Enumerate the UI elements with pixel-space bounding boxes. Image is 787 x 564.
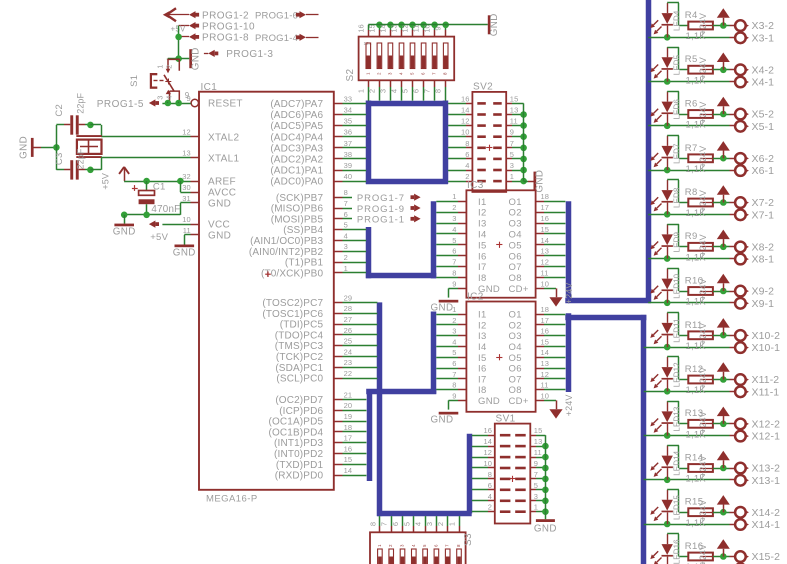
svg-text:2: 2 bbox=[436, 522, 445, 526]
svg-text:5: 5 bbox=[452, 348, 456, 357]
svg-text:+24V: +24V bbox=[698, 146, 708, 168]
svg-text:+24V: +24V bbox=[698, 323, 708, 345]
svg-text:1: 1 bbox=[452, 305, 456, 314]
svg-text:I7: I7 bbox=[478, 374, 487, 385]
svg-text:LED16: LED16 bbox=[673, 539, 682, 564]
svg-text:4: 4 bbox=[414, 522, 423, 526]
svg-text:PROG1-7: PROG1-7 bbox=[357, 193, 405, 204]
svg-text:1: 1 bbox=[365, 72, 370, 75]
svg-text:X13-2: X13-2 bbox=[752, 463, 781, 475]
svg-text:SV1: SV1 bbox=[496, 413, 516, 424]
svg-text:I6: I6 bbox=[478, 251, 487, 262]
svg-text:X10-2: X10-2 bbox=[752, 330, 781, 342]
svg-text:R4: R4 bbox=[685, 10, 698, 21]
svg-text:(ADC5)PA5: (ADC5)PA5 bbox=[270, 121, 323, 132]
svg-text:12: 12 bbox=[541, 258, 550, 267]
svg-text:2: 2 bbox=[344, 253, 348, 262]
svg-text:MEGA16-P: MEGA16-P bbox=[206, 494, 258, 505]
svg-text:I3: I3 bbox=[478, 219, 487, 230]
svg-text:GND: GND bbox=[190, 47, 201, 70]
svg-text:GND: GND bbox=[478, 396, 500, 407]
svg-text:I3: I3 bbox=[478, 331, 487, 342]
svg-text:6: 6 bbox=[452, 359, 456, 368]
svg-text:GND: GND bbox=[534, 524, 557, 535]
svg-text:R7: R7 bbox=[685, 143, 698, 154]
svg-text:14: 14 bbox=[541, 348, 550, 357]
svg-text:I7: I7 bbox=[478, 262, 487, 273]
svg-text:24: 24 bbox=[344, 347, 353, 356]
svg-text:5: 5 bbox=[401, 89, 410, 93]
svg-text:4: 4 bbox=[465, 161, 469, 170]
svg-text:LED7: LED7 bbox=[673, 143, 682, 164]
svg-text:16: 16 bbox=[541, 327, 550, 336]
svg-text:R9: R9 bbox=[685, 231, 698, 242]
svg-text:I5: I5 bbox=[478, 240, 487, 251]
svg-text:O5: O5 bbox=[509, 240, 522, 251]
svg-text:8: 8 bbox=[452, 269, 456, 278]
svg-text:28: 28 bbox=[344, 304, 353, 313]
svg-text:13: 13 bbox=[182, 149, 191, 158]
svg-text:32: 32 bbox=[182, 172, 191, 181]
svg-text:34: 34 bbox=[344, 106, 353, 115]
svg-text:8: 8 bbox=[456, 544, 461, 547]
svg-text:2: 2 bbox=[367, 89, 376, 93]
svg-text:3: 3 bbox=[400, 544, 405, 547]
svg-text:(ADC0)PA0: (ADC0)PA0 bbox=[270, 177, 323, 188]
svg-text:GND: GND bbox=[113, 227, 136, 238]
svg-text:12: 12 bbox=[461, 117, 470, 126]
svg-text:PROG1-4: PROG1-4 bbox=[255, 33, 298, 44]
svg-text:(ADC1)PA1: (ADC1)PA1 bbox=[270, 166, 323, 177]
svg-text:GND: GND bbox=[173, 248, 196, 259]
svg-text:S3: S3 bbox=[463, 533, 474, 546]
svg-text:12: 12 bbox=[182, 128, 191, 137]
svg-text:7: 7 bbox=[445, 544, 450, 547]
svg-text:C3: C3 bbox=[54, 153, 65, 166]
svg-text:9: 9 bbox=[452, 279, 456, 288]
svg-text:30: 30 bbox=[182, 183, 191, 192]
svg-text:(TCK)PC2: (TCK)PC2 bbox=[276, 352, 324, 363]
svg-text:3: 3 bbox=[534, 492, 538, 501]
svg-text:O3: O3 bbox=[509, 331, 522, 342]
svg-text:7: 7 bbox=[432, 72, 437, 75]
svg-text:GND: GND bbox=[431, 302, 454, 313]
svg-text:+24V: +24V bbox=[698, 544, 708, 564]
svg-text:RESET: RESET bbox=[208, 99, 243, 110]
svg-text:X9-2: X9-2 bbox=[752, 286, 775, 298]
svg-text:GND: GND bbox=[208, 231, 231, 242]
svg-text:R5: R5 bbox=[685, 54, 698, 65]
svg-text:9: 9 bbox=[434, 26, 443, 30]
svg-text:X9-1: X9-1 bbox=[752, 298, 775, 310]
svg-text:470nF: 470nF bbox=[151, 204, 180, 215]
svg-text:PROG1-3: PROG1-3 bbox=[226, 49, 273, 60]
svg-text:35: 35 bbox=[344, 117, 353, 126]
svg-text:13: 13 bbox=[534, 437, 543, 446]
svg-text:1: 1 bbox=[448, 522, 457, 526]
svg-text:8: 8 bbox=[452, 381, 456, 390]
svg-text:9: 9 bbox=[510, 128, 514, 137]
svg-text:LED12: LED12 bbox=[673, 362, 682, 387]
svg-text:4: 4 bbox=[452, 225, 456, 234]
svg-text:15: 15 bbox=[534, 426, 543, 435]
svg-text:(ICP)PD6: (ICP)PD6 bbox=[279, 406, 323, 417]
svg-text:LED5: LED5 bbox=[673, 54, 682, 75]
svg-text:1: 1 bbox=[510, 172, 514, 181]
svg-text:+24V: +24V bbox=[698, 500, 708, 522]
svg-text:O5: O5 bbox=[509, 353, 522, 364]
svg-text:(ADC3)PA3: (ADC3)PA3 bbox=[270, 143, 323, 154]
svg-text:(OC2)PD7: (OC2)PD7 bbox=[275, 395, 323, 406]
svg-text:4: 4 bbox=[390, 89, 399, 93]
svg-text:4: 4 bbox=[488, 492, 492, 501]
svg-text:+24V: +24V bbox=[564, 395, 574, 417]
svg-text:X6-2: X6-2 bbox=[752, 153, 775, 165]
svg-text:8: 8 bbox=[488, 470, 492, 479]
svg-text:17: 17 bbox=[541, 203, 550, 212]
svg-text:+24V: +24V bbox=[564, 283, 574, 305]
svg-text:X4-1: X4-1 bbox=[752, 77, 775, 89]
svg-text:6: 6 bbox=[433, 544, 438, 547]
svg-text:8: 8 bbox=[443, 72, 448, 75]
svg-text:AVCC: AVCC bbox=[208, 188, 236, 199]
svg-text:C2: C2 bbox=[54, 104, 65, 117]
svg-text:7: 7 bbox=[510, 139, 514, 148]
svg-text:15: 15 bbox=[541, 225, 550, 234]
svg-text:22: 22 bbox=[344, 369, 353, 378]
svg-text:10: 10 bbox=[461, 128, 470, 137]
svg-text:7: 7 bbox=[423, 89, 432, 93]
svg-text:19: 19 bbox=[344, 412, 353, 421]
svg-text:O7: O7 bbox=[509, 374, 522, 385]
svg-text:O6: O6 bbox=[509, 251, 522, 262]
svg-text:8: 8 bbox=[344, 188, 348, 197]
svg-text:O3: O3 bbox=[509, 219, 522, 230]
svg-text:IC1: IC1 bbox=[201, 82, 218, 93]
svg-text:14: 14 bbox=[541, 236, 550, 245]
svg-text:(TOSC2)PC7: (TOSC2)PC7 bbox=[262, 298, 323, 309]
svg-text:X3-1: X3-1 bbox=[752, 32, 775, 44]
svg-text:LED6: LED6 bbox=[673, 99, 682, 120]
svg-text:5: 5 bbox=[534, 481, 538, 490]
svg-text:6: 6 bbox=[412, 89, 421, 93]
svg-text:1: 1 bbox=[377, 544, 382, 547]
svg-text:5: 5 bbox=[410, 72, 415, 75]
svg-text:PROG1-8: PROG1-8 bbox=[202, 33, 249, 44]
svg-text:25: 25 bbox=[344, 337, 353, 346]
svg-text:O4: O4 bbox=[509, 230, 522, 241]
svg-text:7: 7 bbox=[344, 199, 348, 208]
svg-text:22pF: 22pF bbox=[76, 92, 86, 113]
svg-text:27: 27 bbox=[344, 315, 353, 324]
svg-text:1: 1 bbox=[356, 89, 365, 93]
svg-text:+24V: +24V bbox=[698, 13, 708, 35]
svg-text:10: 10 bbox=[423, 24, 432, 32]
svg-text:PROG1-10: PROG1-10 bbox=[202, 21, 255, 32]
svg-text:3: 3 bbox=[378, 89, 387, 93]
svg-text:16: 16 bbox=[483, 426, 492, 435]
svg-text:(ADC2)PA2: (ADC2)PA2 bbox=[270, 155, 323, 166]
svg-text:15: 15 bbox=[344, 455, 353, 464]
svg-text:18: 18 bbox=[344, 423, 353, 432]
svg-text:39: 39 bbox=[344, 161, 353, 170]
svg-text:14: 14 bbox=[344, 466, 353, 475]
svg-text:16: 16 bbox=[356, 24, 365, 32]
svg-text:I4: I4 bbox=[478, 230, 487, 241]
svg-text:2: 2 bbox=[452, 203, 456, 212]
svg-text:O2: O2 bbox=[509, 320, 522, 331]
svg-text:O6: O6 bbox=[509, 364, 522, 375]
svg-text:17: 17 bbox=[541, 316, 550, 325]
svg-text:R6: R6 bbox=[685, 99, 698, 110]
svg-text:(ADC7)PA7: (ADC7)PA7 bbox=[270, 99, 323, 110]
svg-text:XTAL2: XTAL2 bbox=[208, 132, 239, 143]
svg-text:15: 15 bbox=[367, 24, 376, 32]
svg-text:PROG1-6: PROG1-6 bbox=[255, 11, 298, 22]
svg-text:11: 11 bbox=[541, 269, 549, 278]
svg-text:XTAL1: XTAL1 bbox=[208, 153, 239, 164]
svg-text:O1: O1 bbox=[509, 197, 522, 208]
svg-text:X6-1: X6-1 bbox=[752, 165, 775, 177]
svg-text:LED8: LED8 bbox=[673, 187, 682, 208]
svg-text:12: 12 bbox=[401, 24, 410, 32]
svg-text:23: 23 bbox=[344, 358, 353, 367]
svg-text:(ADC6)PA6: (ADC6)PA6 bbox=[270, 110, 323, 121]
svg-text:SV2: SV2 bbox=[473, 82, 493, 93]
svg-text:I6: I6 bbox=[478, 364, 487, 375]
svg-text:(TXD)PD1: (TXD)PD1 bbox=[276, 460, 324, 471]
svg-text:3: 3 bbox=[425, 522, 434, 526]
svg-text:21: 21 bbox=[344, 390, 353, 399]
svg-text:15: 15 bbox=[541, 337, 550, 346]
svg-text:X10-1: X10-1 bbox=[752, 342, 781, 354]
svg-text:(ADC4)PA4: (ADC4)PA4 bbox=[270, 132, 323, 143]
svg-text:6: 6 bbox=[452, 247, 456, 256]
svg-text:7: 7 bbox=[534, 470, 538, 479]
svg-text:5: 5 bbox=[402, 522, 411, 526]
svg-text:+5V: +5V bbox=[101, 173, 111, 190]
svg-text:11: 11 bbox=[534, 448, 542, 457]
svg-text:10: 10 bbox=[483, 459, 492, 468]
svg-text:12: 12 bbox=[541, 370, 550, 379]
svg-text:+24V: +24V bbox=[698, 101, 708, 123]
svg-text:X12-2: X12-2 bbox=[752, 418, 781, 430]
svg-text:13: 13 bbox=[541, 359, 550, 368]
svg-text:CD+: CD+ bbox=[509, 396, 529, 407]
svg-text:(TMS)PC3: (TMS)PC3 bbox=[275, 341, 324, 352]
svg-text:11: 11 bbox=[412, 25, 421, 33]
svg-text:(SS)PB4: (SS)PB4 bbox=[283, 225, 323, 236]
svg-text:15: 15 bbox=[510, 94, 519, 103]
svg-text:X5-2: X5-2 bbox=[752, 109, 775, 121]
svg-text:(AIN0/INT2)PB2: (AIN0/INT2)PB2 bbox=[249, 247, 324, 258]
svg-text:14: 14 bbox=[378, 24, 387, 32]
svg-text:7: 7 bbox=[380, 522, 389, 526]
svg-text:20: 20 bbox=[344, 401, 353, 410]
svg-text:7: 7 bbox=[452, 370, 456, 379]
svg-text:(INT1)PD3: (INT1)PD3 bbox=[274, 438, 323, 449]
svg-text:+24V: +24V bbox=[698, 234, 708, 256]
svg-text:11: 11 bbox=[541, 381, 549, 390]
svg-text:X7-2: X7-2 bbox=[752, 197, 775, 209]
svg-text:5: 5 bbox=[422, 544, 427, 547]
svg-text:X14-1: X14-1 bbox=[752, 519, 781, 531]
svg-text:4: 4 bbox=[344, 231, 348, 240]
svg-text:33: 33 bbox=[344, 94, 353, 103]
svg-text:O1: O1 bbox=[509, 310, 522, 321]
svg-text:29: 29 bbox=[344, 293, 353, 302]
svg-text:PROG1-1: PROG1-1 bbox=[357, 215, 405, 226]
svg-text:10: 10 bbox=[541, 279, 550, 288]
svg-text:18: 18 bbox=[541, 192, 550, 201]
svg-text:+24V: +24V bbox=[698, 57, 708, 79]
svg-text:IC3: IC3 bbox=[467, 180, 484, 191]
svg-text:36: 36 bbox=[344, 128, 353, 137]
svg-text:4: 4 bbox=[399, 72, 404, 75]
svg-text:+24V: +24V bbox=[698, 367, 708, 389]
svg-text:O2: O2 bbox=[509, 208, 522, 219]
svg-text:13: 13 bbox=[390, 24, 399, 32]
svg-text:3: 3 bbox=[452, 327, 456, 336]
svg-text:(MOSI)PB5: (MOSI)PB5 bbox=[271, 214, 324, 225]
svg-text:8: 8 bbox=[434, 89, 443, 93]
svg-text:S2: S2 bbox=[345, 68, 356, 81]
svg-text:(OC1B)PD4: (OC1B)PD4 bbox=[268, 427, 323, 438]
svg-text:(MISO)PB6: (MISO)PB6 bbox=[271, 204, 324, 215]
svg-text:X12-1: X12-1 bbox=[752, 431, 781, 443]
svg-text:LED4: LED4 bbox=[673, 10, 682, 31]
svg-text:5: 5 bbox=[452, 236, 456, 245]
svg-text:12: 12 bbox=[483, 448, 492, 457]
svg-text:I1: I1 bbox=[478, 310, 487, 321]
svg-text:S1: S1 bbox=[129, 75, 140, 87]
svg-text:6: 6 bbox=[488, 481, 492, 490]
svg-text:+24V: +24V bbox=[698, 190, 708, 212]
svg-text:(RXD)PD0: (RXD)PD0 bbox=[275, 471, 324, 482]
svg-text:10: 10 bbox=[541, 391, 550, 400]
svg-text:(TDO)PC4: (TDO)PC4 bbox=[275, 330, 324, 341]
svg-text:X8-1: X8-1 bbox=[752, 254, 775, 266]
svg-text:GND: GND bbox=[535, 170, 546, 193]
svg-text:O4: O4 bbox=[509, 342, 522, 353]
svg-text:8: 8 bbox=[465, 139, 469, 148]
svg-text:+24V: +24V bbox=[698, 278, 708, 300]
svg-text:16: 16 bbox=[344, 444, 353, 453]
svg-text:AREF: AREF bbox=[208, 177, 236, 188]
svg-text:CD+: CD+ bbox=[509, 284, 529, 295]
svg-text:I8: I8 bbox=[478, 385, 487, 396]
svg-text:26: 26 bbox=[344, 326, 353, 335]
svg-text:10: 10 bbox=[182, 215, 191, 224]
svg-text:37: 37 bbox=[344, 139, 353, 148]
svg-text:6: 6 bbox=[344, 210, 348, 219]
svg-text:X15-2: X15-2 bbox=[752, 551, 781, 563]
svg-text:9: 9 bbox=[185, 91, 190, 100]
svg-text:3: 3 bbox=[344, 242, 348, 251]
svg-text:7: 7 bbox=[452, 258, 456, 267]
svg-text:LED10: LED10 bbox=[673, 273, 682, 298]
svg-text:I8: I8 bbox=[478, 273, 487, 284]
svg-text:PROG1-5: PROG1-5 bbox=[97, 99, 144, 110]
svg-text:(SDA)PC1: (SDA)PC1 bbox=[275, 363, 323, 374]
svg-text:1: 1 bbox=[344, 264, 348, 273]
svg-text:18: 18 bbox=[541, 305, 550, 314]
svg-text:GND: GND bbox=[208, 199, 231, 210]
svg-text:X11-1: X11-1 bbox=[752, 386, 780, 398]
svg-text:O7: O7 bbox=[509, 262, 522, 273]
svg-text:(TDI)PC5: (TDI)PC5 bbox=[280, 320, 324, 331]
svg-text:C1: C1 bbox=[153, 182, 166, 193]
svg-text:X7-1: X7-1 bbox=[752, 209, 775, 221]
svg-text:2: 2 bbox=[488, 503, 492, 512]
svg-text:(T1)PB1: (T1)PB1 bbox=[285, 258, 324, 269]
svg-text:3: 3 bbox=[156, 95, 165, 99]
svg-text:14: 14 bbox=[461, 106, 470, 115]
svg-text:3: 3 bbox=[387, 72, 392, 75]
svg-text:X8-2: X8-2 bbox=[752, 241, 775, 253]
svg-text:3: 3 bbox=[452, 214, 456, 223]
svg-text:+24V: +24V bbox=[698, 411, 708, 433]
svg-text:I5: I5 bbox=[478, 353, 487, 364]
svg-text:6: 6 bbox=[391, 522, 400, 526]
svg-text:GND: GND bbox=[431, 414, 454, 425]
svg-text:X14-2: X14-2 bbox=[752, 507, 781, 519]
svg-text:11: 11 bbox=[510, 117, 518, 126]
svg-text:16: 16 bbox=[461, 94, 470, 103]
svg-text:5: 5 bbox=[510, 150, 514, 159]
svg-text:31: 31 bbox=[182, 194, 191, 203]
svg-text:X11-2: X11-2 bbox=[752, 374, 780, 386]
svg-text:LED11: LED11 bbox=[673, 318, 682, 343]
svg-text:5: 5 bbox=[344, 221, 348, 230]
svg-text:I4: I4 bbox=[478, 342, 487, 353]
svg-text:O8: O8 bbox=[509, 385, 522, 396]
svg-text:2: 2 bbox=[388, 544, 393, 547]
svg-text:(SCL)PC0: (SCL)PC0 bbox=[276, 374, 323, 385]
svg-text:38: 38 bbox=[344, 150, 353, 159]
svg-text:IC2: IC2 bbox=[467, 291, 484, 302]
svg-text:1: 1 bbox=[534, 503, 538, 512]
svg-text:R8: R8 bbox=[685, 187, 698, 198]
svg-text:14: 14 bbox=[483, 437, 492, 446]
svg-text:(AIN1/OC0)PB3: (AIN1/OC0)PB3 bbox=[250, 236, 323, 247]
svg-text:+24V: +24V bbox=[698, 455, 708, 477]
svg-text:4: 4 bbox=[411, 544, 416, 547]
svg-text:X13-1: X13-1 bbox=[752, 475, 781, 487]
svg-text:22pF: 22pF bbox=[76, 148, 86, 169]
svg-text:I2: I2 bbox=[478, 208, 487, 219]
svg-text:1: 1 bbox=[156, 64, 165, 68]
svg-text:(INT0)PD2: (INT0)PD2 bbox=[274, 449, 323, 460]
svg-text:(SCK)PB7: (SCK)PB7 bbox=[276, 193, 324, 204]
svg-text:LED13: LED13 bbox=[673, 406, 682, 431]
svg-text:4: 4 bbox=[452, 337, 456, 346]
svg-text:+5V: +5V bbox=[150, 232, 168, 243]
svg-text:X3-2: X3-2 bbox=[752, 20, 775, 32]
svg-text:GND: GND bbox=[489, 13, 500, 36]
svg-text:4: 4 bbox=[165, 95, 174, 99]
svg-text:17: 17 bbox=[344, 434, 353, 443]
svg-text:X4-2: X4-2 bbox=[752, 64, 775, 76]
svg-text:LED15: LED15 bbox=[673, 495, 682, 520]
svg-text:9: 9 bbox=[534, 459, 538, 468]
svg-text:3: 3 bbox=[510, 161, 514, 170]
svg-text:16: 16 bbox=[541, 214, 550, 223]
svg-text:11: 11 bbox=[183, 226, 191, 235]
svg-text:(OC1A)PD5: (OC1A)PD5 bbox=[268, 417, 323, 428]
svg-text:I1: I1 bbox=[478, 197, 487, 208]
svg-text:40: 40 bbox=[344, 172, 353, 181]
